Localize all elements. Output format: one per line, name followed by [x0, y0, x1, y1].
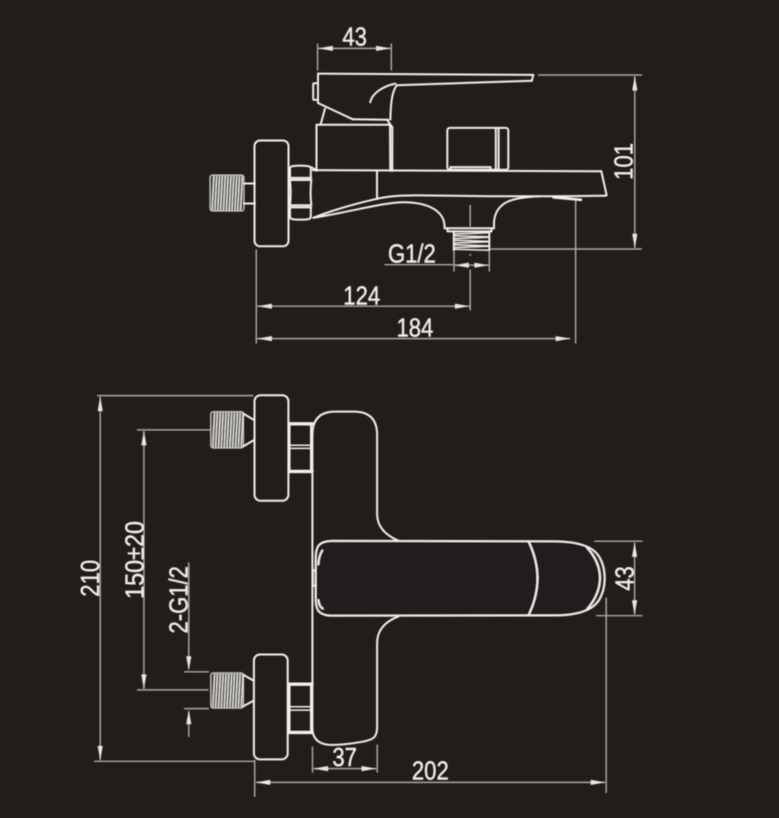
front view: bottom union nut: [289, 684, 312, 732]
side view: cartridge valve body: [317, 109, 393, 171]
dimension 150±20: extension lines: [137, 429, 211, 431]
dimension 37: dimension line: [314, 768, 377, 770]
dimension 101: extension lines: [538, 74, 642, 76]
svg-text:43: 43: [342, 23, 367, 52]
arrowheads top view: [257, 46, 637, 341]
svg-text:2-G1/2: 2-G1/2: [165, 566, 194, 634]
dimension G1/2: extension lines: [453, 252, 455, 272]
front view: bottom wall nipple: [211, 673, 253, 708]
side view: spout-valve divider: [376, 171, 378, 199]
front view dimension texts: [77, 521, 640, 786]
side view: outlet boss bottom and lip: [445, 228, 494, 231]
side view: spout underside upper line: [313, 199, 377, 218]
dimension 124/184: left extension line: [255, 250, 257, 344]
side view: shower diverter block: [447, 128, 508, 170]
side view: handle lever: [318, 74, 533, 120]
dimension 37 arrows: [314, 766, 329, 771]
side view: nipple connecting pipe: [244, 184, 255, 204]
dimension 43 front arrows: [632, 542, 637, 557]
side view: shower outlet thread: [454, 231, 490, 250]
side view: spout tip face: [601, 171, 606, 195]
svg-text:150±20: 150±20: [121, 521, 149, 599]
dimension 124: dimension line: [257, 305, 469, 307]
dimension 43 front: dimension line: [634, 543, 636, 615]
front view: top union nut: [289, 424, 312, 472]
front view: faucet body outline: [312, 412, 398, 745]
side view: handle left pivot tab: [313, 83, 318, 100]
front view: top escutcheon plate: [255, 395, 289, 501]
dimension 101 arrows: [632, 76, 637, 91]
dimension 43: extension lines: [317, 43, 319, 70]
side view: spout bottom edge: [377, 195, 605, 198]
front view: lever left tab: [313, 570, 316, 586]
front view: bottom escutcheon plate: [254, 655, 288, 760]
svg-text:37: 37: [332, 743, 357, 772]
svg-text:101: 101: [610, 143, 639, 180]
dimension 2-G1/2 arrows: [186, 656, 191, 671]
dimension 43 arrows: [318, 46, 333, 51]
top view dimension texts: [342, 23, 639, 343]
front view: handle lever bar: [316, 541, 605, 616]
dimension G1/2 arrows: [454, 263, 469, 268]
dimension 184 arrows: [257, 336, 272, 341]
side view: outlet boss right curve: [494, 196, 540, 228]
arrowheads front view: [98, 397, 638, 785]
dimension 184: right extension line: [575, 200, 577, 343]
dimension 150±20 arrows: [141, 431, 146, 446]
dimension 202: extension lines: [254, 760, 256, 797]
dimension 2-G1/2: ticks: [184, 671, 209, 673]
dimension G1/2: dimension line: [454, 264, 489, 266]
dimension 124 arrows: [257, 304, 272, 309]
side view: wall nipple thread block: [210, 175, 244, 211]
dimension 210: extension lines: [97, 395, 254, 397]
dimension 101: dimension line: [634, 76, 636, 248]
svg-text:210: 210: [77, 560, 106, 597]
side view: spout body top edge: [313, 170, 601, 171]
dimension 202: dimension line: [256, 781, 605, 783]
dimension 210: dimension line: [99, 397, 101, 760]
svg-text:124: 124: [343, 282, 380, 311]
svg-text:202: 202: [412, 757, 449, 786]
dimension 37: extension lines: [312, 747, 314, 773]
dimension 150±20: dimension line: [143, 431, 145, 689]
side view: escutcheon plate: [255, 141, 289, 247]
side view: nut-to-body shoulder line: [312, 167, 317, 170]
svg-text:184: 184: [396, 314, 433, 343]
side view: outlet centerline: [469, 205, 471, 311]
dimension G1/2: leader underline: [384, 264, 453, 266]
svg-text:43: 43: [611, 566, 640, 591]
side view: under-tip aerator lip: [554, 197, 582, 200]
dimension 43 front: extension lines: [594, 540, 643, 542]
dimension 210 arrows: [98, 397, 103, 412]
side view: spout underside sweep: [313, 202, 444, 228]
dimension 43: dimension line: [318, 47, 391, 49]
dimension 202 arrows: [256, 780, 270, 785]
side view: hex union nut: [290, 166, 312, 220]
front view: top wall nipple: [211, 412, 253, 448]
dimension 2-G1/2: leader line: [188, 562, 190, 669]
svg-text:G1/2: G1/2: [388, 240, 436, 269]
dimension 184: dimension line: [257, 338, 570, 340]
